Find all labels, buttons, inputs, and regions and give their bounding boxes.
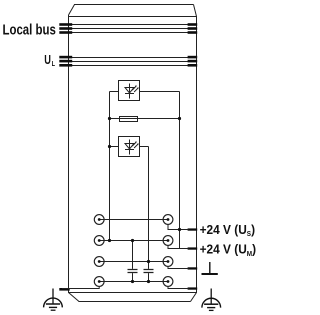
svg-text:+24 V (US): +24 V (US) (200, 223, 255, 239)
svg-text:L: L (52, 60, 56, 68)
svg-text:Local bus: Local bus (3, 21, 56, 38)
svg-text:U: U (44, 54, 51, 68)
